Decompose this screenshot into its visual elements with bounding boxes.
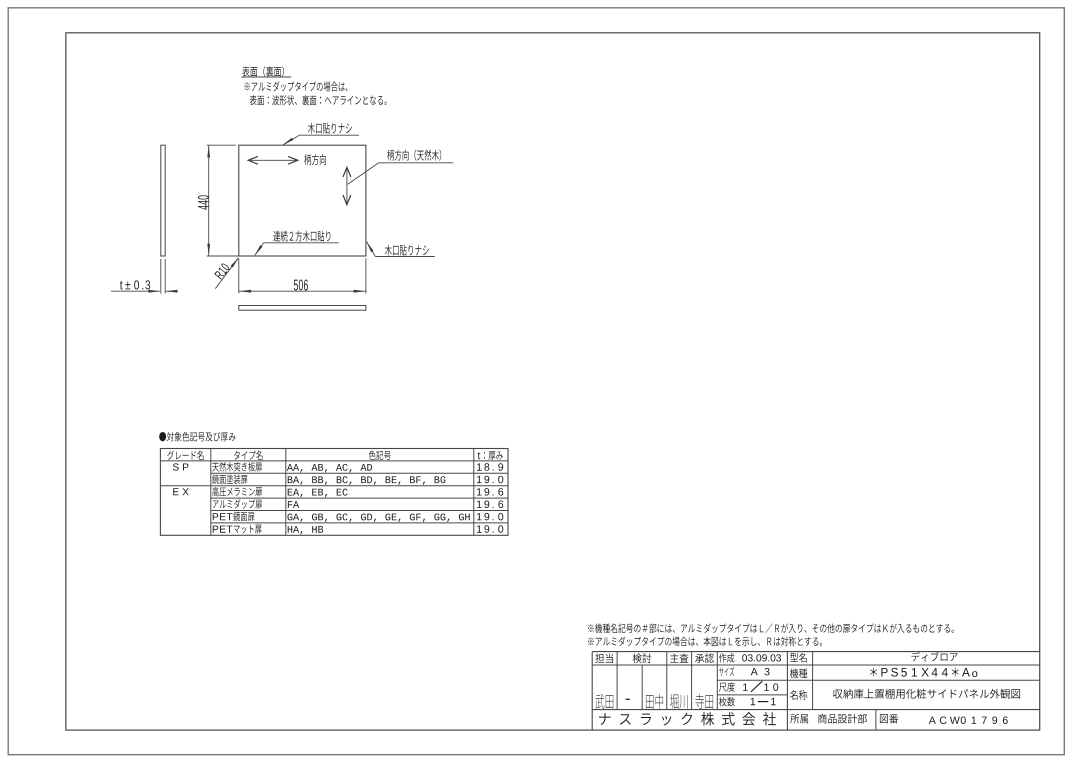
note: surface/back note heading	[242, 66, 249, 76]
note line 2	[245, 82, 250, 90]
leader right no-edge-band	[367, 242, 376, 257]
leader top no-edge-band	[299, 134, 359, 136]
color table grid	[160, 449, 508, 536]
dim 440 text	[198, 195, 209, 209]
value ACW01796	[929, 717, 936, 724]
dim 440 extension lines	[207, 144, 236, 146]
table headers	[167, 451, 174, 460]
サイズ A3	[719, 668, 723, 677]
grain direction vertical arrow	[346, 168, 348, 204]
作成 date	[719, 653, 726, 662]
name stamp 武田	[596, 694, 605, 709]
R10 text	[214, 263, 230, 280]
t dimension extension lines	[160, 259, 162, 294]
value ディブロア	[911, 652, 919, 661]
label right no-edge-band	[385, 245, 392, 256]
dim 440 dimension line	[208, 145, 210, 256]
label top no-edge-band	[308, 123, 315, 134]
table row 2: 鏡面塗装扉	[212, 474, 219, 483]
label continuous edge band	[273, 231, 280, 242]
label 型名	[790, 653, 798, 662]
name stamp 寺田	[695, 694, 704, 709]
label 所属	[790, 714, 799, 724]
leader bottom continuous edge band	[264, 242, 339, 244]
grade names	[173, 463, 179, 470]
title note line 1	[588, 625, 594, 632]
table row 1: 天然木突き板扉	[212, 463, 219, 472]
尺度 1/10	[719, 683, 727, 692]
R10 leader line	[215, 258, 238, 289]
front view panel outline	[239, 145, 366, 256]
dim 506 text	[294, 280, 298, 291]
header 主査	[670, 653, 679, 662]
t dimension line left part	[111, 290, 160, 292]
grain direction horizontal arrow	[249, 159, 297, 161]
name dash	[626, 698, 630, 700]
label 機種	[790, 668, 798, 678]
label 名称	[790, 690, 798, 700]
company ナスラック株式会社	[599, 713, 610, 725]
name stamp 田中	[646, 695, 654, 709]
header 承認	[695, 654, 704, 663]
label 図番	[880, 714, 888, 723]
table row 3: 高圧メラミン扉	[212, 487, 218, 496]
title note line 2	[588, 638, 594, 645]
value 名称 text	[833, 689, 843, 699]
value PS51X44	[870, 667, 877, 676]
bottom edge view bar	[239, 306, 366, 311]
table row 5: PET鏡面扉	[213, 513, 218, 520]
grain direction label	[304, 154, 311, 165]
table row 6: PETマット扉	[213, 526, 218, 533]
title block grid	[592, 651, 1039, 653]
side view thin panel	[161, 145, 165, 256]
t dimension text	[120, 281, 123, 290]
dim 506 extension lines	[238, 259, 240, 294]
枚数 1-1	[719, 697, 727, 706]
table row 4: アルミダップ扉	[213, 500, 219, 508]
header 担当	[595, 653, 604, 663]
table title	[159, 432, 166, 441]
name stamp 堀川	[670, 694, 678, 709]
value 商品設計部	[818, 714, 827, 724]
header 検討	[633, 653, 642, 663]
t dimension line right part	[166, 290, 176, 292]
leader grain natural wood	[379, 162, 454, 164]
label grain natural wood	[387, 150, 394, 161]
note line 3	[250, 95, 257, 105]
dim 506 dimension line	[239, 290, 366, 292]
